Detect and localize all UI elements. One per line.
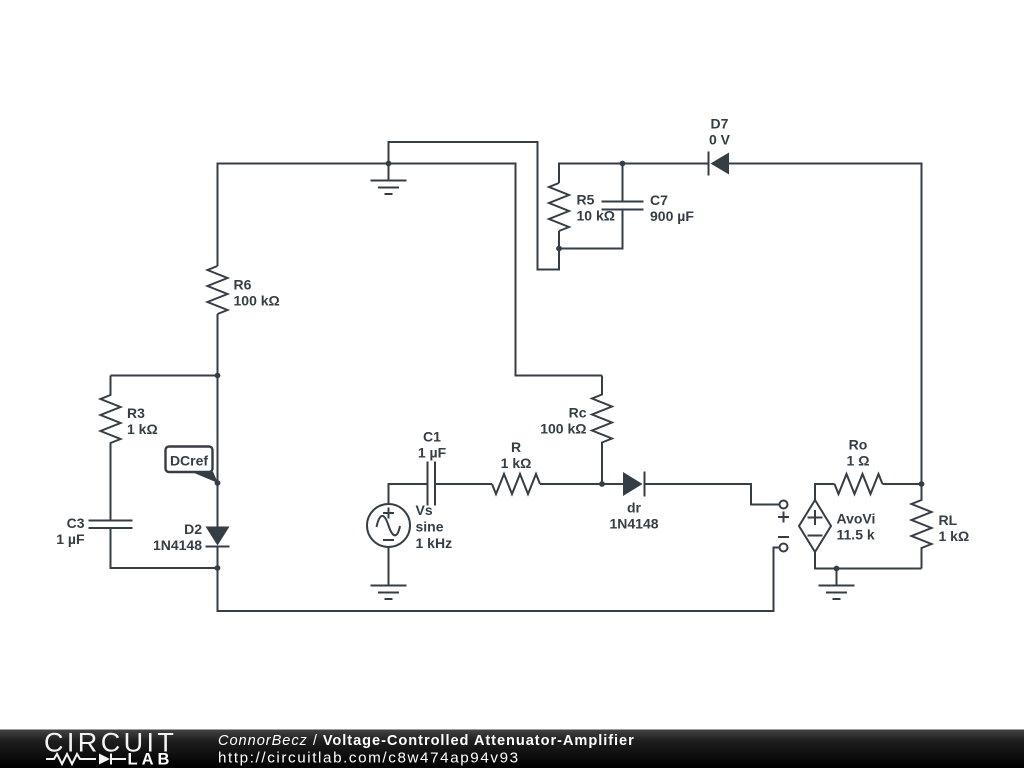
wire: R6 bottom lead to left row junction bbox=[217, 314, 219, 376]
voltage source Vs bbox=[367, 504, 410, 547]
label R6 bbox=[234, 277, 280, 309]
wire: R5 leads and top wire to C7 junction and D7 bbox=[559, 164, 709, 249]
wire: AvoVi top to Ro bbox=[815, 484, 835, 500]
svg-text:0 V: 0 V bbox=[709, 132, 731, 148]
svg-text:1N4148: 1N4148 bbox=[609, 516, 658, 532]
svg-text:C7: C7 bbox=[650, 192, 668, 208]
label D2 bbox=[153, 521, 202, 553]
terminal - output bbox=[780, 544, 788, 552]
resistor R bbox=[492, 474, 540, 494]
node: junction dot DCref bbox=[215, 480, 221, 486]
label DCref bbox=[170, 452, 208, 468]
svg-text:1 kΩ: 1 kΩ bbox=[939, 528, 970, 544]
svg-text:R5: R5 bbox=[577, 192, 595, 208]
label: - sign at terminal bbox=[778, 536, 789, 538]
ground (output) bbox=[819, 569, 855, 600]
svg-text:DCref: DCref bbox=[170, 452, 208, 468]
ground (under Vs) bbox=[371, 547, 407, 599]
svg-text:sine: sine bbox=[416, 519, 444, 535]
svg-text:D2: D2 bbox=[184, 521, 202, 537]
label R bbox=[501, 439, 532, 471]
wire: top net from R6 top to mid vertical, down to Rc feed bbox=[218, 164, 603, 376]
svg-text:RL: RL bbox=[939, 512, 958, 528]
ground (top, at node between R6 and mid wire) bbox=[371, 164, 407, 195]
svg-text:dr: dr bbox=[627, 500, 642, 516]
resistor R5 bbox=[549, 183, 569, 231]
capacitor C7 bbox=[559, 164, 644, 249]
wire: AvoVi bottom to RL bottom bbox=[815, 552, 922, 569]
resistor R6 bbox=[208, 266, 228, 314]
node: junction dot R6 bottom bbox=[215, 373, 221, 379]
wire: D2 column from DCref junction down to triangle bbox=[217, 376, 219, 569]
footer url text bbox=[218, 750, 520, 767]
wire: R to dr anode (through junction) bbox=[540, 483, 623, 485]
svg-text:1 kHz: 1 kHz bbox=[416, 535, 453, 551]
label AvoVi bbox=[837, 511, 876, 543]
label: + sign at terminal bbox=[778, 512, 789, 523]
logo CIRCUIT text bbox=[44, 728, 177, 758]
svg-text:Rc: Rc bbox=[569, 405, 587, 421]
diode D7 (pointing left) bbox=[709, 152, 730, 176]
svg-text:1 kΩ: 1 kΩ bbox=[127, 421, 158, 437]
capacitor C3 bbox=[89, 521, 218, 569]
svg-text:11.5 k: 11.5 k bbox=[837, 527, 875, 543]
svg-text:10 kΩ: 10 kΩ bbox=[577, 208, 615, 224]
svg-text:http://circuitlab.com/c8w474ap: http://circuitlab.com/c8w474ap94v93 bbox=[218, 750, 520, 767]
diode D2 (pointing down) bbox=[206, 527, 230, 547]
node: junction dot Ro/RL/rail bbox=[919, 481, 925, 487]
svg-text:AvoVi: AvoVi bbox=[837, 511, 876, 527]
svg-text:C3: C3 bbox=[67, 515, 85, 531]
svg-text:C1: C1 bbox=[423, 429, 441, 445]
diode dr (pointing right) bbox=[623, 472, 645, 497]
logo LAB text bbox=[128, 751, 174, 768]
label R3 bbox=[127, 405, 158, 437]
resistor Ro bbox=[835, 474, 883, 494]
node: junction dot C7 top bbox=[620, 161, 626, 167]
svg-text:Vs: Vs bbox=[416, 502, 433, 518]
node: junction dot output ground bbox=[834, 566, 840, 572]
wire: C1 to R bbox=[435, 483, 492, 485]
svg-text:100 kΩ: 100 kΩ bbox=[540, 421, 586, 437]
footer title text bbox=[218, 733, 635, 749]
svg-text:100 kΩ: 100 kΩ bbox=[234, 293, 280, 309]
resistor Rc bbox=[592, 376, 612, 485]
svg-text:Ro: Ro bbox=[849, 436, 868, 452]
terminal + output bbox=[780, 501, 788, 509]
svg-text:D7: D7 bbox=[711, 116, 729, 132]
svg-text:ConnorBecz / Voltage-Controlle: ConnorBecz / Voltage-Controlled Attenuat… bbox=[218, 733, 635, 749]
svg-text:1 kΩ: 1 kΩ bbox=[501, 455, 532, 471]
wire: Vs top lead to signal row bbox=[389, 484, 428, 504]
label C7 bbox=[650, 192, 694, 224]
wire: D7 to right rail, down right side bbox=[729, 164, 922, 485]
wire: - terminal down to bottom rail, left to D2 column bbox=[218, 548, 780, 612]
label RL bbox=[939, 512, 970, 544]
dependent source AvoVi (diamond) bbox=[799, 500, 831, 552]
node: junction dot D2 bottom row bbox=[215, 565, 221, 571]
svg-text:1 µF: 1 µF bbox=[56, 531, 85, 547]
logo resistor-diode glyph bbox=[46, 754, 126, 765]
label Rc bbox=[540, 405, 586, 437]
node: junction dot R5/C7 bottom bbox=[556, 246, 562, 252]
resistor RL bbox=[912, 484, 932, 569]
wire: Ro to right rail junction bbox=[883, 483, 922, 485]
svg-text:900 µF: 900 µF bbox=[650, 208, 694, 224]
label C1 bbox=[418, 429, 447, 461]
svg-text:R6: R6 bbox=[234, 277, 252, 293]
label C3 bbox=[56, 515, 85, 547]
label Vs bbox=[416, 502, 453, 551]
capacitor C1 bbox=[428, 462, 436, 506]
svg-text:1 Ω: 1 Ω bbox=[847, 452, 870, 468]
node: junction dot top ground bbox=[386, 161, 392, 167]
svg-text:R3: R3 bbox=[127, 405, 145, 421]
label D7 bbox=[709, 116, 731, 148]
wire: left row junction bbox=[111, 375, 218, 377]
wire: dr cathode to + output terminal bbox=[645, 484, 780, 505]
svg-text:1 µF: 1 µF bbox=[418, 445, 447, 461]
node: junction dot signal/Rc bbox=[599, 481, 605, 487]
label dr bbox=[609, 500, 658, 532]
svg-text:1N4148: 1N4148 bbox=[153, 537, 202, 553]
label R5 bbox=[577, 192, 615, 224]
label Ro bbox=[847, 436, 870, 468]
svg-text:R: R bbox=[511, 439, 521, 455]
wire: bypass from ground junction over to R5/C7 bottom bbox=[389, 142, 560, 270]
resistor R3 bbox=[101, 376, 121, 521]
svg-text:LAB: LAB bbox=[128, 751, 174, 768]
flag DCref bbox=[166, 447, 219, 484]
